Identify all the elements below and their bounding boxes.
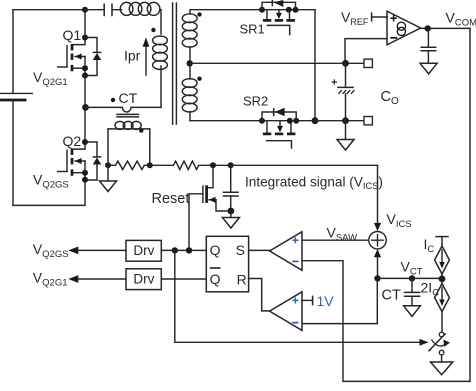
VICS arrow into summer [374,165,381,231]
resistor R1 burden [108,161,150,169]
transformer T1 core [173,3,177,124]
wire integrated signal to summer [231,164,378,166]
switch S1 [429,332,450,362]
ground compensation [420,63,437,74]
wire CT left to node [107,129,109,165]
svg-text:1V: 1V [317,293,335,309]
svg-text:Q: Q [210,242,221,258]
wire Qbar output to Drv2 [161,278,206,280]
CT core [117,114,139,117]
node sense left [105,162,111,168]
wire R input [249,279,270,311]
transformer T1 primary winding [153,36,168,69]
node CT cap [409,275,415,281]
node output bottom [342,117,349,124]
capacitor C1 integrator [223,165,239,211]
inductor Lr series resonant [120,2,160,15]
svg-text:Reset: Reset [152,191,190,207]
node cap top [228,162,234,168]
transistor Q2 [58,133,88,180]
CT secondary winding [108,121,150,129]
ground switch [431,362,453,375]
transistor SR2 [190,94,315,149]
secondary top phase dot [197,12,201,16]
svg-text:CT: CT [382,288,401,304]
capacitor compensation [420,28,436,63]
wire inverting input to output node [345,39,387,64]
op-amp U1 error amplifier [387,11,421,45]
wire top rail from battery to node A [13,9,85,11]
node midpoint to CT [82,104,89,111]
transistor Q1 [58,10,88,76]
node sense right [147,162,153,168]
wire CT right to node [149,129,151,165]
svg-text:Ipr: Ipr [124,48,141,64]
capacitor Cr series resonant [85,3,122,16]
svg-text:S: S [236,242,245,258]
transistor SR1 [191,7,316,37]
wire SR1 source down [314,10,316,121]
wire output top rail [190,62,364,64]
comparator U3 [270,232,302,271]
wire Q output to Drv1 [161,249,206,251]
current source Ic [435,237,450,279]
wire S input [249,249,270,251]
wire to primary top [160,10,161,34]
summing junction [369,232,386,249]
svg-text:Q2: Q2 [63,133,82,149]
ground sense [100,165,117,191]
svg-text:CT: CT [119,90,138,106]
svg-text:Q1: Q1 [63,27,82,43]
terminal square top [364,59,372,67]
node Vcomp [425,25,431,31]
svg-text:Drv: Drv [133,271,154,286]
wire comp2 minus to VCT node [302,278,377,323]
node SR junction [312,117,319,124]
wire Q1 source to Q2 drain [84,76,86,143]
flip-flop U2 SR latch [206,236,248,291]
svg-text:SR2: SR2 [243,94,268,109]
diode D2 body of Q2 [82,142,101,183]
svg-text:Integrated signal (VICS): Integrated signal (VICS) [245,174,383,191]
node center tap [187,60,193,66]
node output top [342,60,349,67]
comparator U4 [270,292,302,331]
capacitor CT timing [404,278,421,305]
capacitor Co output [332,63,355,120]
ground output [337,121,354,150]
wire VCT rail [378,277,443,279]
wire battery return bottom [13,180,85,206]
node reset drain [210,162,216,168]
diode body of SR2 [262,108,296,121]
VQ2G1 output arrow [68,275,126,283]
wire R2 to cap node [213,164,231,166]
wire Vcomp feedback right side [302,28,470,381]
VCT arrow into summer [374,249,381,278]
node VCT [374,275,380,281]
1V reference input [302,296,313,306]
battery source Vin [0,10,33,206]
CT phase dot secondary [139,128,143,132]
CT phase dot primary [111,98,115,102]
svg-text:SR1: SR1 [240,22,265,37]
ground CT cap [404,306,421,317]
transformer T1 secondary top winding [182,10,197,64]
node A top [82,7,88,13]
Ipr arrow [143,37,150,75]
secondary bottom phase dot [197,77,201,81]
wire switch control from Q [175,250,424,342]
resistor R2 integrator [150,161,213,169]
arrowhead switch control [420,339,429,346]
svg-text:Drv: Drv [133,243,154,258]
svg-text:Q: Q [210,271,221,287]
diode body of SR1 [262,0,296,10]
wire primary bottom to CT primary [160,66,162,107]
VQ2GS output arrow [68,247,126,255]
wire Vsaw to summer [302,239,369,241]
terminal square bottom [364,117,372,125]
current source 2Ic [435,279,450,332]
driver Drv1 [126,240,161,261]
svg-text:R: R [237,272,247,288]
node Q to switch control [172,247,178,253]
node Q to reset gate [186,247,192,253]
diode D1 body of Q1 [82,38,101,79]
current transformer CT primary [86,107,162,112]
wire output bottom rail [315,120,364,122]
driver Drv2 [126,269,161,290]
ground integrator [222,211,239,228]
transistor Q3 reset switch [189,165,231,250]
VREF input bar [372,12,387,21]
node reset source [228,208,235,215]
wire op-amp output [421,27,470,29]
primary phase dot [151,28,155,32]
node 2Ic [439,276,446,283]
transformer T1 secondary bottom winding [182,63,197,120]
